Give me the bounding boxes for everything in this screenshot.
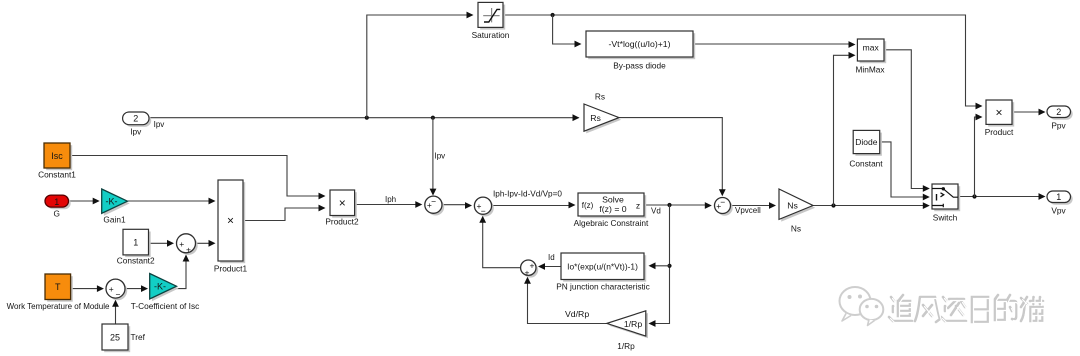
svg-text:Rs: Rs [590, 113, 601, 123]
wire T block to SumB [71, 288, 100, 290]
sum SumB (+-) [106, 279, 127, 300]
svg-text:−: − [720, 197, 725, 207]
sum Sum2 (+ left, - bottom) [474, 197, 493, 216]
svg-text:1: 1 [1056, 192, 1061, 202]
block Product1 [214, 180, 248, 274]
svg-text:1: 1 [54, 197, 59, 207]
svg-text:-K-: -K- [106, 197, 118, 207]
svg-text:Ipv: Ipv [435, 152, 446, 161]
node junction Switch output [972, 194, 976, 198]
wire T-Coefficient gain output up to SumA bottom [177, 256, 187, 289]
svg-text:Vd/Rp: Vd/Rp [565, 309, 589, 319]
wire Saturation output to Product top input [503, 15, 979, 106]
svg-text:×: × [227, 214, 234, 228]
svg-text:By-pass diode: By-pass diode [613, 61, 666, 71]
wire Ns junction up to MinMax input 2 [834, 55, 853, 205]
node junction Vd [667, 203, 671, 207]
block MinMax [855, 39, 886, 75]
constant Constant1 Isc [38, 143, 76, 180]
wire MinMax output down to Switch input 1 [884, 50, 926, 189]
input port 2 Ipv [123, 112, 165, 137]
svg-text:Constant2: Constant2 [117, 256, 155, 266]
svg-text:-Vt*log((u/Io)+1): -Vt*log((u/Io)+1) [608, 39, 670, 49]
svg-text:Ipv: Ipv [130, 127, 142, 137]
gain Gain1 [102, 189, 130, 225]
wire Rs gain output down to Sum3 top [619, 118, 722, 192]
svg-text:−: − [116, 289, 121, 299]
svg-text:−: − [481, 206, 486, 216]
svg-text:Iph-Ipv-Id-Vd/Vp=0: Iph-Ipv-Id-Vd/Vp=0 [493, 190, 562, 199]
block By-pass diode [586, 31, 695, 71]
sum SumA (++) [177, 234, 198, 255]
svg-text:Gain1: Gain1 [103, 215, 126, 225]
svg-text:T-Coefficient of Isc: T-Coefficient of Isc [131, 301, 200, 311]
constant Diode [849, 130, 883, 168]
svg-text:Rs: Rs [595, 92, 605, 102]
wire Sum2 to Algebraic Constraint [492, 205, 573, 207]
wire G port to Gain1 [68, 200, 95, 202]
wire Ipv line down to Sum1 top [432, 118, 434, 189]
wire Algebraic Constraint output (Vd) to Sum3 [644, 204, 708, 206]
wire Switch output to Vpv port [958, 196, 1042, 198]
block Product2 [325, 190, 359, 227]
svg-text:+: + [530, 261, 535, 271]
node junction after Saturation [551, 13, 555, 17]
svg-text:Vpvcell: Vpvcell [735, 206, 761, 215]
wire Product2 output (Iph) to Sum1 [355, 204, 418, 206]
wire Product1 output to Product2 input 2 [243, 208, 322, 221]
svg-text:Product2: Product2 [325, 217, 359, 227]
watermark WeChat logo [840, 287, 884, 326]
block Algebraic Constraint [574, 193, 649, 228]
svg-text:G: G [53, 209, 59, 219]
wire SumB output to T-Coefficient gain [125, 288, 144, 290]
wire Vd junction to PN junction characteristic input [651, 265, 670, 267]
wire Diode constant down to Switch input 2 [880, 142, 926, 197]
svg-text:Io*(exp(u/(n*Vt))-1): Io*(exp(u/(n*Vt))-1) [567, 262, 638, 272]
svg-text:Product1: Product1 [214, 264, 248, 274]
wire 1/Rp output (Vd/Rp) to Sum4 bottom [528, 278, 607, 324]
gain Rs [584, 92, 621, 134]
svg-text:Ns: Ns [787, 201, 798, 211]
svg-text:max: max [863, 43, 880, 53]
sum Sum4 (++) [521, 260, 539, 278]
wire By-pass diode output to MinMax input 1 [693, 43, 852, 45]
svg-text:1: 1 [133, 238, 138, 248]
svg-text:Vd: Vd [651, 207, 661, 216]
gain 1/Rp (points left) [607, 311, 648, 351]
svg-text:Ipv: Ipv [154, 120, 165, 129]
node junction Vd to PN input [667, 264, 671, 268]
wire Product output to Ppv port [1012, 111, 1042, 113]
svg-text:Work Temperature of Module: Work Temperature of Module [7, 302, 110, 311]
svg-text:Constant1: Constant1 [38, 170, 76, 180]
wire SumA output to Product1 input 2 [196, 242, 212, 244]
svg-text:T: T [55, 282, 61, 292]
svg-text:×: × [339, 196, 346, 210]
svg-text:Solve: Solve [602, 195, 624, 205]
node junction Ns output [831, 203, 835, 207]
svg-text:25: 25 [110, 332, 120, 342]
svg-text:+: + [179, 239, 184, 249]
gain Ns [779, 189, 815, 234]
svg-text:Algebraic Constraint: Algebraic Constraint [574, 218, 649, 228]
block Product [985, 100, 1014, 137]
svg-text:1/Rp: 1/Rp [617, 341, 635, 351]
svg-text:Product: Product [985, 127, 1014, 137]
wire PN junction output (Id) to Sum4 [540, 266, 561, 268]
svg-text:f(z): f(z) [582, 201, 594, 210]
wire Ipv port to Rs gain [149, 117, 578, 119]
svg-text:Vpv: Vpv [1051, 206, 1066, 216]
wire Sum1 to Sum2 [442, 204, 468, 206]
svg-text:Iph: Iph [385, 195, 396, 204]
wire Isc constant to Product2 input 1 [70, 156, 322, 197]
svg-text:MinMax: MinMax [855, 65, 885, 75]
wire junction down to By-pass diode input [553, 15, 578, 44]
wire Sum3 output (Vpvcell) to Ns gain [730, 205, 772, 207]
svg-text:f(z) = 0: f(z) = 0 [599, 204, 626, 214]
svg-text:1/Rp: 1/Rp [624, 319, 643, 329]
block Saturation [472, 2, 510, 40]
gain T-Coefficient of Isc [131, 274, 200, 312]
sum Sum3 (+ left, - top) [715, 197, 733, 216]
svg-text:PN junction characteristic: PN junction characteristic [556, 282, 650, 292]
block T Work Temperature of Module [7, 274, 110, 311]
wire Switch output junction up to Product input 2 [975, 117, 980, 197]
svg-text:+: + [109, 284, 114, 294]
node junction on Ipv line (to Saturation) [365, 116, 369, 120]
block PN junction characteristic [556, 253, 650, 292]
svg-text:Isc: Isc [51, 151, 63, 161]
wire Ns gain output to Switch input 3 [813, 205, 926, 207]
svg-text:+: + [186, 244, 191, 254]
wire Constant2 to SumA [149, 242, 171, 244]
svg-text:Tref: Tref [131, 332, 146, 342]
wire Vd feedback down to PN junction and 1/Rp [651, 205, 670, 324]
svg-text:z: z [636, 201, 640, 211]
wire Tref constant up to SumB bottom [115, 301, 117, 324]
sum Sum1 (+ left, - top) [425, 196, 444, 215]
wire Sum4 output up to Sum2 bottom [483, 217, 521, 268]
svg-text:Diode: Diode [855, 137, 877, 147]
svg-text:+: + [525, 268, 530, 278]
wire Ipv line up to Saturation input [367, 15, 471, 118]
block Switch [932, 184, 960, 223]
svg-text:2: 2 [133, 114, 138, 124]
output port 2 Ppv [1047, 106, 1073, 131]
svg-text:−: − [431, 196, 436, 206]
watermark text 追风逐日的猫 (stylized strokes) [889, 295, 1043, 322]
constant Tref 25 [102, 324, 146, 352]
svg-text:Switch: Switch [933, 213, 958, 223]
svg-text:-K-: -K- [154, 282, 166, 292]
node junction on Ipv line (to Sum1) [431, 116, 435, 120]
svg-text:Id: Id [548, 253, 555, 262]
constant Constant2 [117, 229, 155, 265]
wire Gain1 output to Product1 input 1 [128, 200, 213, 202]
svg-text:×: × [995, 106, 1002, 120]
svg-text:Ns: Ns [791, 224, 801, 234]
svg-text:Constant: Constant [849, 159, 883, 169]
input port 1 G [45, 195, 71, 218]
output port 1 Vpv [1047, 191, 1073, 216]
svg-text:Ppv: Ppv [1051, 121, 1066, 131]
svg-text:2: 2 [1056, 107, 1061, 117]
svg-text:Saturation: Saturation [472, 30, 510, 40]
